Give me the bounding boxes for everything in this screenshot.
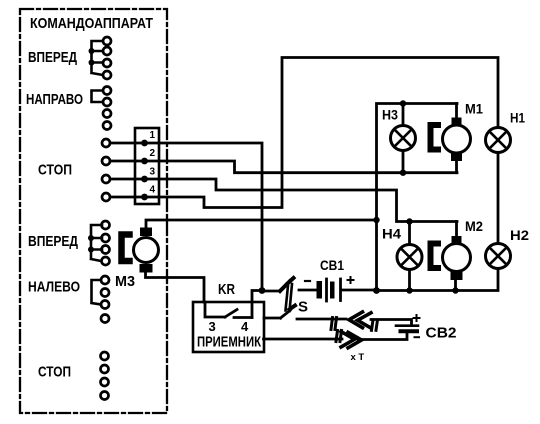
motor M1 bottom lead [455, 161, 458, 173]
battery CB1 wire left [299, 289, 316, 292]
svg-text:СТОП: СТОП [38, 364, 71, 381]
CB2 plus sign [414, 315, 420, 321]
motor M1 brush top [452, 118, 462, 127]
motor M2 bottom lead [454, 280, 457, 291]
connector XT upper ticks left [331, 318, 337, 330]
wire S lower to connector XT upper [297, 318, 346, 321]
motor M1 brush bottom [451, 153, 462, 161]
svg-text:4: 4 [150, 185, 156, 196]
node H4 top [406, 218, 412, 224]
node S junction [259, 287, 266, 294]
svg-text:М2: М2 [465, 218, 483, 234]
lamp H3 bottom lead [402, 151, 405, 173]
svg-text:2: 2 [150, 148, 156, 159]
motor M1 stator bracket [431, 125, 439, 150]
motor M3 stator bracket [122, 235, 130, 262]
lamp H4 bottom lead [408, 270, 411, 291]
wire H2 bottom to bottom bus [377, 269, 499, 291]
wire M3 bottom to receiver pin 3 [146, 273, 205, 303]
switch S bottom cap [264, 306, 295, 319]
node H3 bottom [400, 170, 406, 176]
motor M2 top lead [455, 222, 458, 237]
wire XT lower to CB2 bottom [358, 333, 407, 340]
svg-text:ПРИЕМНИК: ПРИЕМНИК [197, 334, 262, 351]
battery CB1 [317, 281, 323, 299]
motor M1 [443, 125, 471, 153]
motor M3 [134, 238, 159, 263]
wire H1 bottom to H2 top [497, 153, 500, 244]
wire M3 top to common bus [146, 220, 377, 228]
svg-text:ВПЕРЕД: ВПЕРЕД [28, 233, 78, 250]
svg-text:S: S [298, 299, 308, 316]
switch group НАЛЕВО bracket [92, 280, 102, 305]
motor M1 top lead [455, 104, 458, 119]
svg-text:KR: KR [218, 282, 235, 298]
contact circles ВПЕРЕД-2 [102, 221, 110, 265]
relay contact pin3 stub [205, 302, 225, 317]
connector XT upper chevrons [349, 312, 371, 328]
common vertical bus and M1/H3 loop top [377, 104, 458, 291]
node CB1 / bottom bus [373, 287, 380, 294]
node H4 bottom [406, 287, 412, 293]
command apparatus dashed enclosure [20, 9, 167, 413]
svg-text:СТОП: СТОП [38, 162, 72, 179]
contact circles СТОП-2 [101, 352, 109, 400]
wire pin1 net: contact to S junction [110, 143, 262, 291]
svg-text:3: 3 [150, 167, 156, 178]
connector block with pins 1-4 [135, 128, 159, 204]
motor M3 brush bottom [140, 264, 153, 273]
switch S jaw plates [286, 284, 293, 311]
relay contact blade [225, 310, 237, 318]
wire XT upper to CB2 [371, 320, 412, 326]
svg-text:Н3: Н3 [382, 107, 398, 123]
connector XT lower ticks [336, 331, 342, 342]
lone contact circles below НАПРАВО [103, 110, 111, 130]
lamp H4 [397, 245, 422, 270]
battery CB2 bottom plate [401, 329, 418, 333]
lamp H1 [486, 128, 511, 153]
node M2 bottom [452, 287, 458, 293]
receiver box KR [193, 302, 264, 352]
CB1 minus sign [305, 280, 310, 282]
contact circles СТОП-1 [102, 139, 110, 201]
CB1 plus sign [348, 277, 354, 283]
svg-text:Н4: Н4 [382, 226, 401, 242]
contact circles НАПРАВО [103, 87, 111, 107]
switch S blade wire [262, 290, 280, 293]
svg-text:М1: М1 [465, 101, 483, 117]
lamp H2 [486, 244, 511, 269]
pin 2 dot [141, 158, 148, 165]
wire junction to receiver pin 4 [252, 291, 262, 318]
CB2 minus sign [415, 336, 420, 338]
switch group ВПЕРЕД-2 bracket [91, 225, 102, 261]
pin 1 dot [141, 140, 148, 147]
svg-text:КОМАНДОАППАРАТ: КОМАНДОАППАРАТ [30, 15, 153, 32]
lone contact circle below НАЛЕВО [101, 315, 109, 323]
motor M3 brush top [140, 228, 152, 237]
svg-text:НАПРАВО: НАПРАВО [26, 91, 83, 108]
relay contact pin4 bar [234, 316, 252, 319]
lamp H3 [391, 126, 416, 151]
contact circles ВПЕРЕД-1 [103, 37, 111, 79]
switch S top cap [280, 278, 294, 291]
wire pin3 net: contact to lamp H4 / motor M2 top bus [110, 179, 457, 222]
wire pin2 net: contact to lamp H3 / motor M1 bottom bus [110, 161, 457, 173]
svg-text:Н2: Н2 [510, 227, 529, 243]
svg-text:СВ1: СВ1 [320, 257, 344, 273]
svg-text:Н1: Н1 [510, 110, 525, 126]
pin 3 dot [141, 176, 148, 183]
svg-text:1: 1 [150, 130, 156, 141]
battery CB2 top plate [396, 324, 418, 327]
svg-text:4: 4 [241, 319, 249, 334]
svg-text:3: 3 [209, 319, 216, 334]
wire receiver to connector XT lower [264, 338, 343, 341]
pin 4 dot [141, 194, 148, 201]
motor M2 brush top [452, 236, 462, 244]
junction dots on ВПЕРЕД-2 bracket [88, 235, 94, 241]
svg-text:М3: М3 [115, 273, 135, 290]
motor M2 [443, 244, 471, 272]
svg-text:ВПЕРЕД: ВПЕРЕД [28, 49, 77, 66]
svg-text:СВ2: СВ2 [426, 326, 457, 342]
contact circles НАЛЕВО [101, 276, 109, 309]
wire pin4 net: contact to top bus and lamp H1 [110, 58, 498, 208]
motor M2 stator bracket [431, 244, 439, 269]
motor M2 brush bottom [451, 272, 463, 281]
connector XT upper ticks right [372, 320, 378, 330]
svg-text:НАЛЕВО: НАЛЕВО [28, 279, 80, 296]
switch group ВПЕРЕД-1 bracket [92, 41, 104, 75]
connector XT lower chevrons [341, 332, 362, 348]
junction dots on ВПЕРЕД-1 bracket [89, 48, 95, 54]
lamp H4 top lead [408, 222, 411, 245]
switch group НАПРАВО bracket [92, 91, 104, 103]
node M3/bus junction [373, 217, 379, 223]
battery CB1 wire right [342, 289, 376, 292]
svg-text:х Т: х Т [351, 352, 365, 363]
node H3 top [400, 100, 406, 106]
lamp H3 top lead [402, 104, 405, 126]
